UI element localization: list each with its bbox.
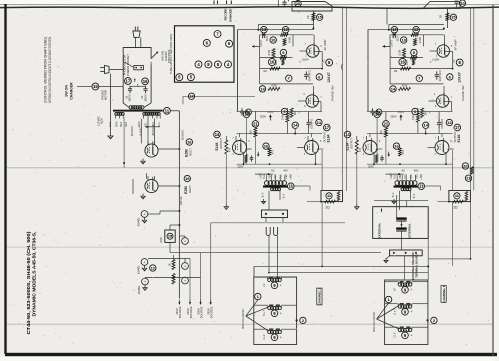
transformer T1 primary leads (123, 103, 129, 107)
ch2 box speaker 3 coil (268, 330, 271, 333)
ch1 hum box (449, 191, 471, 202)
feed y222 (211, 222, 345, 224)
speaker feed bus upper (254, 265, 428, 267)
ch1 box speaker 2 coil (398, 305, 401, 308)
svg-text:1 LF: 1 LF (393, 332, 397, 338)
wire chain low (145, 277, 201, 279)
ch1 top cap C1 (455, 0, 459, 2)
svg-text:AC: AC (401, 169, 405, 173)
B+ arrow 300V (200, 300, 202, 305)
svg-text:POWER SOCKET: POWER SOCKET (126, 54, 130, 76)
ch2 circled in (270, 37, 276, 43)
ch1 hum resistor (452, 200, 463, 203)
ch1 arrow 350V (400, 115, 402, 121)
ch1 wire y29.7 (368, 29, 444, 31)
svg-text:EL84: EL84 (326, 134, 330, 142)
svg-text:AC: AC (323, 59, 326, 63)
ch1 box crossover diag 2 (377, 319, 399, 329)
svg-text:NON-POLARIZED: NON-POLARIZED (242, 309, 245, 330)
ch1 box speaker 1 ref (402, 287, 409, 294)
svg-text:+: + (410, 288, 412, 292)
svg-text:470: 470 (228, 147, 231, 152)
svg-text:+118V: +118V (301, 58, 309, 62)
svg-text:12: 12 (414, 27, 419, 32)
svg-text:2Ω: 2Ω (325, 206, 330, 210)
ch2 resistor h 470K (268, 87, 280, 90)
socket symbol (134, 66, 144, 70)
svg-text:26.5VAC: 26.5VAC (180, 130, 184, 141)
wire ext to rail (428, 258, 470, 260)
svg-text:14: 14 (293, 123, 298, 128)
svg-text:+: + (280, 284, 282, 288)
ch2 channel right rail (321, 150, 323, 191)
tube layout socket 7 (225, 61, 232, 68)
ch1 wire box drop (446, 8, 448, 28)
ch2 plug prong a (266, 227, 270, 236)
ch1 circled ot ref (418, 183, 425, 190)
svg-text:AC: AC (271, 169, 275, 173)
ch2 tube V1 AF amp (307, 45, 319, 57)
ch2 hum left wire (307, 201, 321, 203)
svg-text:21: 21 (384, 121, 389, 126)
ch1 label EL84 b (454, 124, 461, 131)
svg-text:16: 16 (143, 79, 148, 84)
tube layout socket 1 (214, 31, 221, 38)
white margin right of frame (494, 0, 499, 361)
svg-text:+: + (280, 336, 282, 340)
svg-text:+A80: +A80 (290, 174, 293, 180)
ch2 arrow cathode (257, 152, 259, 157)
svg-text:+: + (280, 312, 282, 316)
svg-text:EL84: EL84 (346, 142, 350, 150)
T1 long lead a (123, 119, 125, 168)
svg-text:+: + (410, 334, 412, 338)
ch2 box speaker 3 ref (271, 334, 278, 341)
capacitor .047 right (145, 86, 147, 89)
ch2 tube V3b EL84 (305, 141, 319, 155)
right low rail (470, 202, 472, 259)
svg-text:CONTROL: CONTROL (167, 49, 171, 64)
svg-text:300V: 300V (368, 165, 374, 169)
svg-text:BLK: BLK (262, 192, 265, 197)
svg-text:6.3VAC: 6.3VAC (139, 126, 143, 135)
ch1 circled 12a (413, 26, 420, 33)
ch2 circled 14b (259, 86, 265, 92)
right cluster circled b (465, 175, 471, 181)
svg-text:16: 16 (270, 60, 275, 65)
svg-text:140mA: 140mA (179, 196, 183, 205)
wire plug to switch box (135, 38, 137, 48)
ch2 box speaker 2 coil (268, 306, 271, 309)
svg-text:12AX7: 12AX7 (327, 72, 331, 83)
ch2 control box (292, 2, 332, 12)
ch1 arrow cathode (388, 152, 390, 157)
svg-text:GRN: GRN (115, 122, 118, 128)
svg-text:SOURCE: SOURCE (199, 306, 203, 318)
ch2 box circled A (255, 293, 261, 299)
ch1 cathode drop wire (356, 154, 358, 204)
ch2 circled 16b (268, 58, 275, 65)
wire v5 plate to bus (158, 185, 179, 187)
transformer T1 leads (115, 115, 117, 118)
ch2 vertical feed (321, 266, 323, 268)
svg-text:OUTPUT: OUTPUT (453, 131, 457, 142)
wire bus into resistor box (169, 225, 171, 230)
arrow between (134, 79, 136, 82)
ch1 wire y24.5 (389, 24, 444, 26)
ch2 box crossover stem (246, 300, 258, 316)
ch2 ot to rail (292, 185, 311, 187)
svg-text:10K: 10K (280, 115, 284, 120)
ch1 ot leads (396, 175, 398, 181)
right cluster resistor (471, 167, 474, 174)
ch1 resistor 360 (421, 108, 424, 118)
svg-text:CHANNEL 2: CHANNEL 2 (318, 288, 322, 305)
label rect V5 (184, 175, 190, 181)
ch1 stub 46K (385, 112, 387, 121)
ch2 resistor 470 (268, 148, 271, 156)
ch2 stub cap005 (308, 112, 310, 120)
ch2 circled 13a (261, 26, 268, 33)
svg-text:EL84: EL84 (457, 134, 461, 142)
ch2 cap .0047 (305, 71, 307, 74)
tube layout socket 6 (214, 61, 221, 68)
ground C32 (144, 266, 146, 269)
ch1 circled 14b (390, 86, 396, 92)
transformer T1 secondary L (115, 112, 118, 115)
svg-text:DYNAMIC MODELS A45-50, CT36: DYNAMIC MODELS A45-50, CT36-S, (31, 231, 37, 317)
svg-text:470: 470 (402, 149, 405, 154)
cap joins (401, 222, 403, 229)
svg-text:.0047MFD: .0047MFD (308, 70, 311, 82)
svg-text:11: 11 (165, 108, 170, 113)
svg-text:ARROWS ON CONTROLS INDICATE CL: ARROWS ON CONTROLS INDICATE CLOCKWISE RO… (48, 36, 52, 103)
ch1 stub 18 down (376, 118, 378, 165)
svg-text:14: 14 (345, 132, 350, 137)
ch2 box crossover diag 2 (246, 316, 269, 331)
svg-text:12AX7: 12AX7 (458, 72, 462, 83)
hook mark (341, 64, 342, 70)
wire branch 285 (210, 223, 212, 300)
wire ext right edge (427, 238, 429, 280)
ch2 resistor 100K v (281, 33, 289, 36)
horizontal feed y252 (170, 252, 381, 254)
svg-text:PHASE INV: PHASE INV (331, 85, 335, 100)
svg-text:RED: RED (416, 174, 419, 179)
svg-text:16: 16 (187, 139, 192, 144)
ch2 label EL84 a (214, 131, 221, 138)
ch1 tube V3b EL84 (435, 141, 449, 155)
svg-text:AF AMP: AF AMP (454, 39, 458, 50)
svg-text:BLK: BLK (283, 193, 286, 198)
ch2 box channel label (317, 288, 322, 305)
ch2 wire y83.9 (260, 83, 313, 85)
svg-text:RED: RED (120, 122, 123, 127)
ch1 ot to rail (422, 185, 441, 187)
left border bar (4, 4, 6, 354)
svg-text:470K: 470K (402, 85, 408, 88)
svg-text:5 x 7: 5 x 7 (262, 310, 266, 316)
wire heater drop c (154, 119, 156, 145)
tube layout socket 8 (176, 74, 183, 81)
tube layout socket 4 (195, 61, 202, 68)
ch2 circled cap ref (316, 74, 322, 80)
ch1 circled 20 top (459, 0, 465, 6)
ch1 ot ground (393, 199, 395, 201)
svg-text:18: 18 (244, 112, 249, 117)
svg-text:EL84: EL84 (215, 142, 219, 150)
svg-text:1 LF: 1 LF (262, 334, 266, 340)
top border line (gray) (0, 4, 499, 6)
svg-text:LF: LF (262, 283, 266, 286)
transformer T1 core (113, 110, 163, 112)
ch2 stub 10K (286, 122, 288, 133)
ch2 resistor h 1M (270, 67, 280, 70)
svg-text:BLK: BLK (392, 192, 395, 197)
ch2 output transformer primary (265, 181, 270, 186)
tube layout socket 9 (187, 74, 194, 81)
ch1 tube V1 AF amp (437, 45, 449, 57)
ch2 box speaker 2 ref (271, 310, 278, 317)
ch2 ot leads (266, 175, 268, 181)
ch1 resistor h 1M (401, 67, 411, 70)
svg-text:250V: 250V (267, 110, 273, 114)
ch1 circled 16b (399, 58, 406, 65)
svg-text:3.3M: 3.3M (268, 50, 271, 56)
switch arm (151, 53, 157, 59)
ch2 wire box drop (312, 11, 314, 28)
svg-text:12: 12 (283, 27, 288, 32)
svg-text:GRN: GRN (138, 122, 141, 128)
ch1 left rail (367, 30, 369, 112)
svg-text:21: 21 (466, 176, 471, 181)
svg-text:RECT: RECT (188, 185, 192, 193)
ch2 hum box (321, 191, 343, 202)
ch1 resistor h 470K (399, 87, 411, 90)
interstage line pair B (470, 8, 472, 191)
ground C30 (144, 218, 146, 221)
ch1 cathode RC (375, 155, 378, 163)
svg-text:14: 14 (423, 123, 428, 128)
svg-text:1600V: 1600V (129, 94, 132, 102)
svg-text:OUTPUT: OUTPUT (219, 138, 223, 149)
B+ arrow 140V (178, 300, 180, 305)
resistor R41 1K (172, 260, 175, 270)
ground ext board (386, 256, 390, 259)
ch1 circled 1M (416, 75, 422, 81)
svg-text:+118V: +118V (432, 58, 440, 62)
svg-text:18: 18 (375, 112, 380, 117)
svg-text:MOTOR: MOTOR (104, 90, 108, 100)
ch2 resistor 3.3M (272, 49, 275, 59)
ch1 circled cap ref (447, 74, 453, 80)
svg-text:RECORD: RECORD (224, 9, 228, 21)
svg-text:14: 14 (215, 132, 220, 137)
ch2 ot ground (263, 199, 265, 201)
svg-text:1M: 1M (394, 70, 397, 73)
svg-text:1K: 1K (167, 263, 171, 266)
svg-text:46V: 46V (414, 169, 419, 173)
ch1 output transformer primary (395, 181, 400, 186)
ch1 box channel label (441, 286, 446, 303)
svg-text:100K: 100K (418, 37, 422, 43)
white margin above schematic (0, 0, 499, 4)
svg-text:20: 20 (463, 163, 468, 168)
ch2 output transformer secondary (271, 188, 274, 191)
wire rect heaters (132, 179, 134, 194)
svg-text:13: 13 (447, 120, 452, 125)
ch2 stub 14c (294, 129, 296, 134)
circled ref 17 (125, 78, 132, 85)
ch2 box speaker 1 ref (271, 282, 278, 289)
ch1 box speaker 1 coil (398, 283, 401, 286)
wire chain mid (148, 258, 190, 260)
ch2 tube V3a EL84 (233, 141, 247, 155)
svg-text:14: 14 (391, 86, 396, 91)
ch2 rail y57.6 (260, 57, 293, 59)
ch1 wire row top (367, 111, 453, 113)
svg-text:21: 21 (253, 121, 258, 126)
ch1 wire row mid (367, 133, 453, 135)
svg-text:2K: 2K (438, 15, 442, 19)
svg-text:13: 13 (392, 27, 397, 32)
svg-text:15: 15 (168, 235, 172, 239)
svg-text:RED: RED (125, 122, 128, 127)
svg-text:17: 17 (455, 125, 460, 130)
svg-text:350V: 350V (260, 115, 266, 119)
svg-text:20MFD: 20MFD (137, 286, 141, 295)
svg-text:470K: 470K (271, 85, 277, 88)
wire v4 plate to bus (158, 148, 179, 150)
ch1 box crossover stem (377, 303, 389, 319)
phono plug body (133, 31, 140, 38)
ch1 circled 3.3M ref (411, 49, 417, 55)
ch2 ecap in A (262, 32, 264, 38)
svg-text:SW ON: SW ON (65, 85, 69, 97)
svg-text:AC: AC (453, 59, 456, 63)
ch1 hum left wire (438, 201, 449, 203)
ch1 control box (423, 2, 460, 9)
svg-text:CHANGER: CHANGER (228, 9, 232, 23)
ch1 circled 18 (374, 111, 381, 118)
svg-text:BLU: BLU (267, 36, 269, 41)
svg-text:BLK: BLK (413, 193, 416, 198)
ch2 stub 46K (254, 112, 256, 121)
big cap C40 plates (396, 217, 407, 219)
ch1 circled 13c (446, 119, 452, 125)
svg-text:470: 470 (359, 147, 362, 152)
svg-text:16: 16 (394, 144, 399, 149)
ch1 box junction B (427, 319, 429, 321)
ch2 circled 20 top (295, 0, 301, 6)
ch1 label 12AX7 (456, 59, 463, 66)
svg-text:BLU: BLU (397, 36, 399, 41)
ch1 resistor 100K v (411, 33, 419, 36)
svg-text:13: 13 (262, 27, 267, 32)
phono motor plug (100, 67, 104, 69)
svg-text:.0047MFD: .0047MFD (439, 70, 442, 82)
ch2 output transformer core (263, 186, 288, 188)
ch2 label 12AX7 (326, 59, 333, 66)
svg-text:1MFD: 1MFD (260, 40, 263, 47)
svg-text:SOURCE: SOURCE (189, 306, 193, 318)
ch1 tube V2 phase inv (437, 95, 449, 107)
wire to sw on changer (99, 86, 123, 88)
scan speckle (317, 17, 320, 20)
ch1 cap .0047 (436, 71, 438, 74)
top edge ticks (213, 1, 215, 5)
ch2 circled ot ref (288, 183, 295, 190)
svg-text:SOURCE: SOURCE (178, 306, 182, 318)
svg-text:13: 13 (317, 120, 322, 125)
ch2 cathode resistor (225, 140, 228, 154)
svg-text:15: 15 (451, 15, 456, 20)
ch2 circled 13c (316, 119, 322, 125)
ch1 stub 14c (425, 129, 427, 134)
ch1 box speaker 2 ref (402, 309, 409, 316)
svg-text:10: 10 (401, 37, 406, 42)
ch1 wire y83.9 (390, 83, 443, 85)
ch2 circled 14c (292, 122, 298, 128)
svg-text:1M: 1M (263, 70, 266, 73)
heater arrow (145, 126, 150, 128)
svg-text:15: 15 (93, 84, 98, 89)
svg-text:16: 16 (400, 60, 405, 65)
ch2 grid element (282, 59, 284, 65)
svg-text:RECT: RECT (189, 148, 193, 156)
ch2 cathode drop wire (225, 154, 227, 204)
wire plug to box (109, 69, 123, 71)
page fold line middle (7, 246, 493, 248)
ch2 wire y68.6 (260, 68, 322, 70)
ch1 grid element (413, 59, 415, 65)
ch2 cathode RC (245, 155, 248, 163)
right border line (492, 5, 494, 356)
phono plug prongs (134, 27, 136, 32)
svg-text:1MFD: 1MFD (391, 40, 394, 47)
heater feed wire (183, 95, 255, 97)
ch1 box speaker box (385, 280, 428, 345)
svg-text:2K: 2K (306, 15, 310, 19)
ch2 hum resistor (325, 200, 336, 203)
svg-text:BLU: BLU (394, 174, 397, 179)
speaker feed bus lower (269, 272, 428, 274)
ch2 ot sec leads (268, 191, 270, 210)
rectifier V5 EZ80 (145, 179, 158, 192)
svg-text:LF: LF (393, 288, 397, 291)
svg-text:10K: 10K (411, 115, 415, 120)
B+ bus vertical (178, 111, 180, 299)
resistor R42 (172, 274, 175, 285)
B+ arrow 260V (189, 300, 191, 305)
svg-text:60W: 60W (100, 118, 104, 124)
svg-text:RED: RED (285, 174, 288, 179)
ch2 label EL84 b (324, 124, 331, 131)
svg-text:470: 470 (272, 149, 275, 154)
wire xfmr to ext box (396, 195, 398, 218)
filter cap C34 (142, 278, 149, 285)
svg-text:100K: 100K (287, 37, 291, 43)
ch1 top feed vertical (386, 8, 388, 24)
svg-text:26.5VAC: 26.5VAC (130, 126, 134, 137)
ch1 wire y68.6 (390, 68, 452, 70)
ch2 cap corner (241, 108, 243, 111)
ch1 circled 360 ref (412, 108, 418, 114)
svg-text:40MFD: 40MFD (137, 218, 141, 227)
circled ref 15 (92, 83, 99, 90)
big cap C41 plates (396, 227, 407, 229)
top border line (dark wavy) (0, 7, 499, 9)
